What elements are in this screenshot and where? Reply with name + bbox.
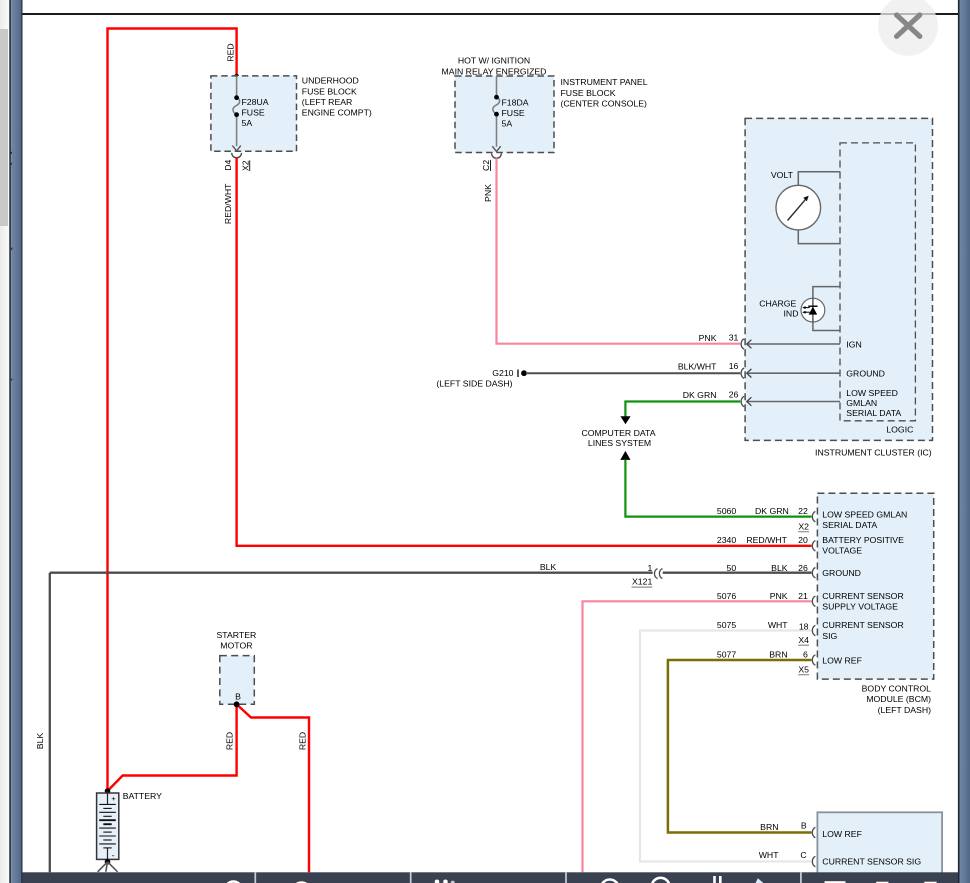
battery symbol bbox=[97, 793, 119, 859]
svg-text:BLK: BLK bbox=[540, 562, 557, 572]
toolbar icon 3 dots bbox=[435, 880, 440, 883]
svg-text:STARTER: STARTER bbox=[217, 630, 257, 640]
svg-text:INSTRUMENT PANEL: INSTRUMENT PANEL bbox=[561, 77, 648, 87]
svg-text:LOW SPEED: LOW SPEED bbox=[846, 388, 898, 398]
left pane edge bbox=[9, 0, 11, 883]
svg-text:F18DA: F18DA bbox=[502, 97, 529, 107]
svg-text:22: 22 bbox=[798, 506, 808, 516]
top page border line bbox=[21, 13, 958, 15]
toolbar icon 7 cursor bbox=[756, 878, 764, 883]
fuse F18DA element bbox=[493, 77, 500, 147]
wire RED/WHT 2340 fuse D4 to BCM pin 20 bbox=[237, 158, 812, 546]
wire RED starter B to lower right feed bbox=[237, 704, 309, 872]
BCM pin 20 connector bbox=[812, 541, 815, 551]
svg-text:D4: D4 bbox=[223, 159, 233, 170]
toolbar icon 8 rects bbox=[825, 881, 846, 883]
svg-text:G210: G210 bbox=[492, 368, 513, 378]
svg-text:16: 16 bbox=[729, 361, 739, 371]
svg-text:CURRENT SENSOR SIG: CURRENT SENSOR SIG bbox=[822, 857, 921, 867]
wire PNK fuse F18DA to IC pin 31 bbox=[497, 158, 741, 343]
BCM pin 6 connector bbox=[812, 655, 815, 665]
svg-text:B: B bbox=[801, 821, 807, 831]
svg-text:(LEFT REAR: (LEFT REAR bbox=[302, 97, 353, 107]
svg-text:GROUND: GROUND bbox=[822, 568, 861, 578]
svg-text:X121: X121 bbox=[632, 577, 652, 587]
svg-text:VOLT: VOLT bbox=[771, 170, 794, 180]
wire PNK 5076 BCM pin 21 down bbox=[583, 601, 812, 872]
wire RED starter B to battery positive bbox=[108, 704, 237, 791]
svg-text:WHT: WHT bbox=[759, 850, 779, 860]
svg-text:DK GRN: DK GRN bbox=[755, 506, 789, 516]
svg-text:FUSE: FUSE bbox=[502, 108, 525, 118]
volt gauge M1 bbox=[776, 185, 821, 230]
wire RED battery feed (battery + to underhood fuse block) bbox=[108, 29, 237, 792]
scrollbar specks bbox=[10, 152, 12, 154]
ground below battery G1 bbox=[105, 859, 111, 865]
svg-text:21: 21 bbox=[798, 591, 808, 601]
svg-text:CHARGE: CHARGE bbox=[759, 298, 796, 308]
IC pin 31 IGN internal line bbox=[747, 343, 840, 345]
svg-text:SERIAL DATA: SERIAL DATA bbox=[822, 520, 877, 530]
wire DK GRN IC pin 26 to computer data lines bbox=[625, 402, 740, 417]
current sensor pin C connector bbox=[812, 856, 815, 866]
svg-text:HOT W/ IGNITION: HOT W/ IGNITION bbox=[458, 56, 530, 66]
svg-text:(LEFT DASH): (LEFT DASH) bbox=[878, 705, 932, 715]
current sensor pin B connector bbox=[812, 827, 815, 837]
svg-text:C: C bbox=[800, 850, 806, 860]
arrow out of instrument panel fuse block bbox=[492, 146, 500, 151]
svg-text:F28UA: F28UA bbox=[242, 97, 269, 107]
volt gauge wiring loop bbox=[798, 172, 840, 186]
svg-text:5077: 5077 bbox=[717, 650, 736, 660]
svg-text:FUSE BLOCK: FUSE BLOCK bbox=[561, 88, 616, 98]
left scrollbar track bbox=[0, 0, 9, 883]
svg-text:MOTOR: MOTOR bbox=[220, 641, 252, 651]
left slate bar bbox=[11, 0, 21, 883]
BCM pin 26 connector bbox=[812, 568, 815, 578]
svg-text:WHT: WHT bbox=[768, 620, 788, 630]
svg-text:BRN: BRN bbox=[769, 650, 787, 660]
connector cup under underhood fuse block bbox=[232, 153, 242, 158]
charge indicator wiring loop bbox=[813, 287, 840, 299]
svg-text:RED/WHT: RED/WHT bbox=[223, 183, 233, 224]
toolbar icon 6 bars bbox=[713, 876, 716, 883]
wire BLK/WHT G210 to IC pin 16 bbox=[526, 372, 740, 374]
svg-text:BODY CONTROL: BODY CONTROL bbox=[862, 683, 932, 693]
svg-text:BLK/WHT: BLK/WHT bbox=[678, 361, 717, 371]
svg-text:LOW REF: LOW REF bbox=[822, 829, 862, 839]
svg-text:BLK: BLK bbox=[771, 563, 788, 573]
svg-text:LOW REF: LOW REF bbox=[822, 655, 862, 665]
svg-text:MAIN RELAY ENERGIZED: MAIN RELAY ENERGIZED bbox=[442, 66, 547, 76]
svg-text:X4: X4 bbox=[798, 635, 809, 645]
svg-text:SERIAL DATA: SERIAL DATA bbox=[846, 408, 901, 418]
svg-text:PNK: PNK bbox=[483, 184, 493, 202]
svg-text:5076: 5076 bbox=[717, 591, 736, 601]
svg-text:(LEFT SIDE DASH): (LEFT SIDE DASH) bbox=[436, 378, 512, 388]
svg-text:1: 1 bbox=[647, 563, 652, 573]
svg-text:GROUND: GROUND bbox=[846, 368, 885, 378]
connector cup under instrument panel fuse block bbox=[492, 153, 502, 158]
svg-text:BRN: BRN bbox=[760, 822, 778, 832]
svg-text:C2: C2 bbox=[481, 160, 491, 171]
svg-text:26: 26 bbox=[729, 390, 739, 400]
svg-text:2340: 2340 bbox=[717, 535, 736, 545]
svg-text:+: + bbox=[111, 794, 116, 803]
svg-text:RED: RED bbox=[297, 732, 307, 750]
svg-text:MODULE (BCM): MODULE (BCM) bbox=[866, 694, 931, 704]
svg-text:5A: 5A bbox=[242, 118, 253, 128]
svg-text:IGN: IGN bbox=[846, 340, 861, 350]
svg-text:31: 31 bbox=[729, 333, 739, 343]
svg-text:PNK: PNK bbox=[770, 591, 788, 601]
BCM pin 22 connector bbox=[812, 511, 815, 521]
svg-text:INSTRUMENT CLUSTER (IC): INSTRUMENT CLUSTER (IC) bbox=[815, 448, 932, 458]
svg-text:X2: X2 bbox=[798, 521, 809, 531]
svg-text:(CENTER CONSOLE): (CENTER CONSOLE) bbox=[561, 99, 648, 109]
svg-text:RED/WHT: RED/WHT bbox=[746, 535, 787, 545]
svg-text:FUSE BLOCK: FUSE BLOCK bbox=[302, 86, 357, 96]
svg-text:IND: IND bbox=[784, 309, 799, 319]
svg-text:CURRENT SENSOR: CURRENT SENSOR bbox=[822, 591, 903, 601]
svg-text:B: B bbox=[235, 692, 241, 702]
svg-text:SUPPLY VOLTAGE: SUPPLY VOLTAGE bbox=[822, 602, 898, 612]
wire BLK 50 battery ground run to BCM pin 26 bbox=[50, 572, 653, 574]
svg-text:UNDERHOOD: UNDERHOOD bbox=[302, 76, 359, 86]
svg-text:BLK: BLK bbox=[35, 733, 45, 750]
starter motor box bbox=[220, 656, 255, 705]
node starter motor pin B bbox=[234, 701, 240, 707]
svg-text:BATTERY POSITIVE: BATTERY POSITIVE bbox=[822, 535, 904, 545]
svg-text:50: 50 bbox=[727, 563, 737, 573]
BCM pin 21 connector bbox=[812, 596, 815, 606]
svg-text:18: 18 bbox=[799, 622, 809, 632]
fuse F28UA element bbox=[233, 76, 240, 146]
node battery positive junction bbox=[105, 788, 111, 794]
IC pin 16 GROUND internal line bbox=[747, 372, 840, 374]
svg-text:RED: RED bbox=[226, 43, 236, 61]
svg-text:ENGINE COMPT): ENGINE COMPT) bbox=[302, 108, 372, 118]
svg-text:SIG: SIG bbox=[822, 631, 837, 641]
svg-text:5060: 5060 bbox=[717, 506, 736, 516]
toolbar icon 1 circle bbox=[225, 882, 242, 883]
instrument panel fuse block box bbox=[455, 76, 554, 153]
toolbar icon 4 circle bbox=[601, 880, 619, 883]
toolbar icon 5 circle bbox=[652, 878, 670, 883]
instrument cluster outer box bbox=[745, 118, 932, 440]
svg-text:BATTERY: BATTERY bbox=[123, 791, 162, 801]
svg-text:6: 6 bbox=[803, 650, 808, 660]
arrow out of underhood fuse block bbox=[232, 146, 240, 151]
BCM pin 18 connector bbox=[812, 625, 815, 635]
svg-text:GMLAN: GMLAN bbox=[846, 398, 877, 408]
svg-text:COMPUTER DATA: COMPUTER DATA bbox=[581, 428, 655, 438]
svg-text:LOW SPEED GMLAN: LOW SPEED GMLAN bbox=[822, 510, 907, 520]
ground G210 splice bbox=[517, 370, 519, 378]
svg-text:VOLTAGE: VOLTAGE bbox=[822, 546, 862, 556]
left scrollbar thumb bbox=[0, 29, 8, 226]
charge indicator lamp bbox=[801, 298, 825, 322]
inline connector X121 bbox=[655, 569, 658, 579]
svg-text:DK GRN: DK GRN bbox=[683, 390, 717, 400]
battery current sensor box bbox=[817, 812, 942, 880]
right pane edge bbox=[958, 0, 960, 883]
svg-text:X2: X2 bbox=[240, 160, 250, 171]
svg-text:5075: 5075 bbox=[717, 620, 736, 630]
svg-text:LINES SYSTEM: LINES SYSTEM bbox=[588, 438, 651, 448]
svg-text:X5: X5 bbox=[798, 664, 809, 674]
IC pin 26 GMLAN internal line bbox=[747, 401, 840, 403]
body control module box bbox=[817, 493, 933, 679]
svg-text:PNK: PNK bbox=[699, 333, 717, 343]
svg-text:CURRENT SENSOR: CURRENT SENSOR bbox=[822, 620, 903, 630]
svg-text:5A: 5A bbox=[502, 119, 513, 129]
node junction at fuse F28UA input bbox=[234, 74, 239, 79]
svg-text:20: 20 bbox=[798, 535, 808, 545]
svg-text:RED: RED bbox=[225, 732, 235, 750]
svg-text:-: - bbox=[112, 850, 115, 860]
wire DK GRN 5060 computer data lines to BCM pin 22 bbox=[620, 451, 630, 460]
wire BRN 5077 BCM pin 6 to current sensor pin B bbox=[668, 660, 812, 833]
svg-text:FUSE: FUSE bbox=[242, 108, 265, 118]
instrument cluster logic inner box bbox=[840, 143, 915, 421]
underhood fuse block box bbox=[211, 76, 297, 151]
svg-text:26: 26 bbox=[798, 563, 808, 573]
svg-text:LOGIC: LOGIC bbox=[886, 425, 913, 435]
bottom toolbar bbox=[21, 872, 958, 883]
right slate bar bbox=[960, 0, 970, 883]
close button bbox=[878, 0, 938, 56]
wire WHT 5075 BCM pin 18 to current sensor pin C bbox=[640, 631, 812, 862]
